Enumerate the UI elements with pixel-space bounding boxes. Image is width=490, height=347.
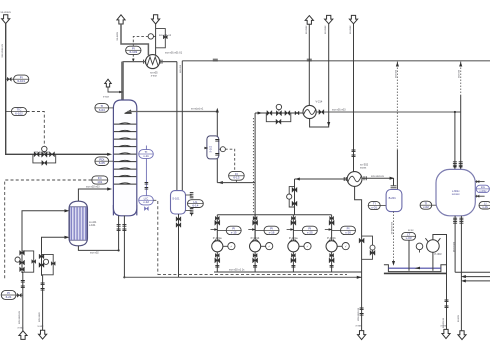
svg-text:P-101b: P-101b	[251, 236, 260, 240]
svg-text:B-201: B-201	[389, 196, 397, 200]
flange B-301 feed right 2	[459, 165, 463, 167]
flange column bottoms left 2	[117, 229, 121, 231]
trim cooler V-214	[303, 105, 316, 118]
svg-text:xx-xxxx: xx-xxxx	[305, 25, 308, 34]
wire suction drop P-201a	[292, 215, 294, 241]
svg-text:x-3x: x-3x	[482, 205, 488, 209]
svg-text:x-16: x-16	[269, 230, 275, 234]
wire discharge P-101a	[216, 252, 218, 272]
wire product rail stub	[455, 111, 461, 113]
flow arrow reboiler return	[107, 187, 112, 190]
reboiler E-101 shell	[69, 201, 88, 246]
valve suction P-201b 1	[330, 216, 334, 220]
wire pump suction header	[217, 214, 331, 216]
reboiler tube 6	[85, 207, 87, 240]
svg-text:xxx-x-x1x: xxx-x-x1x	[452, 242, 455, 253]
valve LG B-301 top	[477, 180, 480, 183]
flange discharge P-101a	[215, 265, 219, 267]
flange pair condenser inlet	[144, 60, 146, 64]
flow arrow join 1	[461, 275, 466, 278]
wire steam to reboiler	[22, 211, 65, 250]
wire bottoms product to OUT	[355, 186, 362, 330]
reboiler tube 2	[73, 207, 75, 240]
svg-text:xx-xxxx: xx-xxxx	[116, 31, 119, 40]
flow arrow into trough	[392, 261, 395, 266]
svg-text:xxx-xxx: xxx-xxx	[179, 65, 182, 74]
condensate control valve body	[39, 263, 44, 268]
block valve V-214 line 2	[285, 111, 290, 116]
svg-text:x-03x: x-03x	[479, 189, 487, 193]
svg-text:xxx-x01-x01-01: xxx-x01-x01-01	[165, 51, 183, 54]
actuator condensate control valve	[43, 259, 48, 264]
signal dashed trap to FI	[225, 149, 235, 170]
svg-text:101: 101	[97, 180, 102, 184]
svg-text:x-xxx: x-xxx	[103, 95, 110, 98]
valve suction P-101a 1	[215, 216, 219, 220]
wire discharge P-101b	[254, 252, 256, 272]
column tray 7	[114, 168, 136, 169]
svg-text:xxx-xxxx-xx: xxx-xxxx-xx	[390, 222, 393, 235]
svg-text:xxx-xxx: xxx-xxx	[457, 70, 460, 79]
svg-text:x-15: x-15	[231, 230, 237, 234]
wire B-301 outlet to right edge	[455, 271, 490, 273]
pump P-201b	[326, 240, 349, 252]
wire PI-101 tap	[6, 78, 14, 80]
wire LG tap upper	[186, 194, 192, 196]
wire actuator stem	[43, 151, 45, 153]
wire steam riser	[21, 250, 23, 273]
svg-text:6-102: 6-102	[15, 111, 23, 115]
flange LG bottom	[190, 209, 194, 211]
valve riser 1	[292, 187, 297, 192]
wire B-301 vent dotted	[460, 62, 462, 95]
wire P-303 discharge to OUT	[433, 235, 447, 330]
svg-text:6-21: 6-21	[6, 295, 12, 299]
wire suction drop P-101a	[216, 215, 218, 241]
valve suction P-201a 1	[291, 216, 295, 220]
column tray 3	[114, 138, 136, 139]
valve discharge P-201a 1	[291, 253, 295, 257]
off-page connector CW in (down)	[152, 15, 160, 24]
instrument TI column top	[95, 104, 109, 113]
svg-text:xxxxx: xxxxx	[360, 166, 367, 169]
svg-text:x-xxx: x-xxx	[18, 327, 25, 330]
flange pair condenser outlet	[160, 60, 162, 64]
off-page connector bottoms out (down)	[358, 331, 366, 340]
cooler E-302	[347, 172, 362, 187]
wire discharge P-201b	[331, 252, 333, 272]
instrument FI-113	[229, 171, 245, 180]
valve steam station upper	[20, 250, 25, 255]
instrument PI steam	[1, 290, 16, 299]
flow arrow into riser	[295, 177, 300, 180]
flange E-302 inlet	[352, 150, 356, 152]
wire to E-302 from IN-4	[353, 24, 355, 172]
open sump trough	[384, 265, 446, 272]
flow arrow into column feed nozzle	[107, 153, 112, 156]
wire tee stub P-101b	[248, 229, 252, 231]
valve S-101 bottom 1	[176, 217, 181, 222]
wire condensate bypass loop	[42, 254, 54, 274]
flange B-301 feed right	[459, 162, 463, 164]
wire condenser inlet rail	[123, 61, 146, 63]
wire reboiler bottom crossover	[78, 246, 118, 251]
svg-text:xxx-x02-x03: xxx-x02-x03	[86, 186, 100, 189]
control valve actuator on CW line	[148, 34, 153, 39]
wire riser from pump header	[294, 179, 296, 215]
flow arrow small vent	[119, 91, 123, 93]
signal dashed LIC rail	[158, 274, 347, 276]
flange on bridle 2	[145, 188, 149, 190]
wire LG B-301 bottom tap	[475, 195, 484, 197]
flow arrow up at corner	[216, 108, 219, 113]
flange steam line	[21, 281, 25, 283]
control valve body TV-214	[276, 111, 281, 116]
off-page connector condensate out (bottom, down)	[39, 330, 47, 339]
wire overhead vapor rail to flare	[182, 60, 490, 62]
column tray 2	[114, 130, 136, 131]
junction rail B-301 feed	[454, 111, 456, 113]
svg-text:xx-xxxx: xx-xxxx	[349, 25, 352, 34]
off-page connector IN-3 (down)	[325, 15, 333, 23]
svg-text:x-03: x-03	[406, 236, 412, 240]
wire B-301 outlet left	[454, 216, 456, 272]
svg-text:P-303: P-303	[435, 252, 442, 256]
condensate bypass valve	[51, 262, 55, 266]
svg-text:x-101: x-101	[89, 223, 96, 227]
wire V-214 CW supply	[310, 24, 329, 128]
svg-text:xx-xxxx: xx-xxxx	[324, 25, 327, 34]
svg-text:P-101a: P-101a	[213, 236, 222, 240]
wire valve stem sump	[419, 250, 421, 253]
valve discharge P-101a 1	[215, 253, 219, 257]
wire P-303 suction	[432, 252, 434, 271]
off-page connector small vent (up)	[105, 79, 111, 87]
svg-text:x-01: x-01	[371, 205, 377, 209]
wire B-301 feed left	[454, 112, 456, 169]
wire from right edge 1	[464, 276, 490, 278]
wire TI-301 stub	[380, 205, 386, 207]
svg-text:xxx-xxxx-xx: xxx-xxxx-xx	[357, 307, 360, 321]
svg-text:x-xxx: x-xxx	[38, 325, 45, 328]
surge drum B-201	[386, 190, 402, 212]
column T-101 bottom head	[113, 205, 136, 216]
wire actuator stem CW	[153, 35, 155, 37]
valve riser 2	[292, 201, 297, 206]
wire bottoms bypass loop	[362, 236, 373, 259]
wire distillate riser/pump suction	[254, 113, 256, 241]
flange B-301 feed left	[453, 162, 457, 164]
wire condensate drop	[41, 254, 43, 276]
svg-text:xxx-xxxx-xx: xxx-xxxx-xx	[1, 43, 4, 57]
flange B-301 drain	[459, 218, 463, 220]
pump P-201a	[288, 240, 311, 252]
svg-text:6-05: 6-05	[99, 161, 105, 165]
svg-text:✓: ✓	[230, 244, 233, 248]
signal dashed PC to CW valve	[133, 36, 148, 46]
valve condensate upper	[39, 254, 44, 259]
instrument LIC-112 (blue)	[139, 196, 154, 205]
flange B-301 drain 2	[459, 222, 463, 224]
flow arrow into B-301 b	[459, 166, 461, 170]
block valve feed station 1	[34, 152, 39, 157]
flange pair on rail 2	[307, 59, 312, 61]
svg-text:xxxxxx: xxxxxx	[452, 193, 460, 196]
svg-text:x-12: x-12	[143, 200, 149, 204]
svg-text:6-04: 6-04	[99, 108, 105, 112]
svg-text:6-103: 6-103	[129, 50, 137, 54]
column tray 1	[114, 123, 136, 124]
valve suction P-101a 2	[215, 220, 220, 225]
flange condensate	[41, 283, 45, 285]
svg-text:xxx-xxxx-xx: xxx-xxxx-xx	[18, 310, 21, 324]
valve suction P-101b 2	[253, 220, 258, 225]
wire steam bypass loop	[22, 251, 34, 272]
flow arrow bottoms rail	[357, 276, 362, 279]
wire TI B-301 stub	[432, 204, 436, 206]
flange B-301 outlet left	[453, 218, 457, 220]
instrument PI P-201a	[302, 226, 317, 234]
instrument PI P-101a	[226, 226, 241, 234]
wire PI tap column mid	[109, 160, 114, 162]
instrument TI B-301	[420, 201, 432, 209]
svg-text:P-201a: P-201a	[289, 236, 298, 240]
flange column bottoms right 2	[122, 229, 126, 231]
wire TI-102 tap	[6, 111, 12, 113]
svg-text:P-201b: P-201b	[327, 236, 336, 240]
instrument PI P-201b	[341, 226, 356, 234]
flow arrow tee P-201b	[329, 228, 333, 230]
flange pair E-302 right	[364, 176, 366, 180]
wire discharge P-201a	[292, 252, 294, 272]
pump P-101b	[250, 240, 273, 252]
flange LG bottom2	[190, 212, 194, 214]
flange column bottoms right	[122, 225, 126, 227]
actuator steam control valve	[15, 257, 20, 262]
steam control valve body	[20, 260, 25, 265]
reboiler tube 5	[82, 207, 84, 240]
wire column bottoms left	[118, 216, 120, 251]
wire B-201 inlet drop	[393, 178, 395, 185]
wire reboiler return to column	[78, 189, 107, 201]
flange B-301 feed left 2	[453, 165, 457, 167]
wire S-101 bottoms drop	[178, 214, 180, 277]
wire S-102 bottom drop	[216, 159, 218, 183]
bypass valve V-214	[276, 119, 281, 124]
wire LT dip tube	[408, 240, 410, 271]
wire line to V-214	[255, 112, 303, 114]
wire small vent line	[108, 87, 123, 92]
signal dashed LIC to bottoms valve	[153, 200, 158, 274]
flange pair B-201 top	[391, 186, 397, 188]
wire PI steam tap	[16, 294, 23, 296]
wire feed bypass loop	[33, 154, 56, 163]
flange P-303 discharge 2	[445, 306, 449, 308]
flow arrow into V-214 line	[258, 111, 263, 114]
svg-text:6-101: 6-101	[17, 79, 25, 83]
wire condenser outlet rail	[160, 61, 177, 63]
wire B-201 vent riser dotted	[396, 62, 398, 150]
off-page connector product out (down)	[442, 329, 450, 338]
wire tee stub P-101a	[211, 229, 215, 231]
wire tee stub P-201b	[325, 229, 329, 231]
instrument LI B-301	[479, 202, 490, 210]
valve circle sump	[416, 243, 423, 250]
instrument PIC-103	[126, 46, 141, 54]
flange LG top	[190, 193, 194, 195]
control valve body feed	[42, 152, 47, 157]
svg-text:xx xx: xx xx	[408, 229, 414, 232]
signal dashed FC-101 line	[5, 180, 92, 280]
steam bypass valve	[32, 260, 36, 264]
valve S-101 bottom 2	[176, 223, 181, 228]
block valve feed station 2	[50, 152, 55, 157]
reboiler tube 4	[79, 207, 81, 240]
flange LG top2	[190, 196, 194, 198]
svg-text:xx-xxxxx: xx-xxxxx	[1, 11, 12, 14]
valve after V-214	[319, 110, 324, 115]
wire bottoms rail	[124, 276, 361, 278]
instrument LT sump	[402, 232, 416, 240]
wire PI stub P-201b	[332, 229, 341, 231]
flange discharge P-201a	[291, 265, 295, 267]
svg-text:xx-x(xx)-x1: xx-x(xx)-x1	[191, 107, 204, 110]
svg-text:✓: ✓	[268, 244, 271, 248]
wire B-301 feed right	[460, 95, 462, 169]
actuator TV-214	[276, 104, 281, 109]
wire trap stub	[219, 148, 221, 150]
steam trap on S-102	[220, 147, 225, 152]
signal arrow onto condenser line	[132, 59, 134, 63]
svg-text:✓: ✓	[306, 244, 309, 248]
wire condensate from reboiler	[42, 237, 66, 253]
wire condensate to S-101	[176, 62, 178, 191]
flow arrow tee P-101b	[252, 228, 256, 230]
wire B-201 vent riser	[396, 150, 398, 190]
svg-text:xxx-xxxx: xxx-xxxx	[38, 312, 41, 322]
flange on bridle	[145, 183, 149, 185]
flow arrow into B-201 top	[390, 177, 395, 180]
svg-text:xxx-xxx: xxx-xxx	[394, 70, 397, 79]
flange pair on rail	[213, 59, 218, 61]
wire column overhead draw line	[127, 111, 217, 113]
wire V-214 CW return riser	[308, 24, 310, 105]
off-page connector IN-1 (top left, down)	[2, 15, 10, 24]
wire level bridle blue	[145, 146, 147, 197]
valve suction P-201a 2	[291, 220, 296, 225]
wire CW bypass loop	[156, 29, 166, 48]
svg-text:xxx-x02-x1 1x: xxx-x02-x1 1x	[229, 269, 245, 272]
wire B-201 drain dotted	[393, 212, 395, 262]
wire tee stub P-201a	[287, 229, 291, 231]
junction bottoms-rail	[123, 276, 125, 278]
junction crossover-column	[118, 249, 120, 251]
flow arrow CW down	[327, 122, 330, 127]
off-page connector OUT vent (up)	[117, 15, 125, 24]
wire TI tap column top	[109, 107, 114, 109]
pump P-101a	[212, 240, 235, 252]
bypass valve feed	[42, 160, 47, 165]
flange P-303 discharge	[445, 300, 449, 302]
flow arrow into B-301 a	[454, 166, 456, 170]
flow arrow vent up	[396, 62, 399, 67]
svg-text:x-xxx: x-xxx	[441, 325, 447, 328]
wire from right edge 2	[464, 280, 490, 282]
svg-text:x-xxx: x-xxx	[151, 74, 158, 77]
valve steam station lower	[20, 267, 25, 272]
instrument PDI column	[95, 157, 109, 166]
instrument PI P-101b	[264, 226, 279, 234]
flow arrow tee P-201a	[290, 228, 294, 230]
wire pump discharge header	[214, 271, 362, 273]
instrument TI-301	[368, 201, 380, 209]
svg-text:x-xxx: x-xxx	[356, 325, 363, 328]
valve discharge P-101a 2	[215, 258, 220, 263]
svg-text:xxx-x01-x03: xxx-x01-x03	[332, 109, 346, 112]
signal dashed FI stem	[235, 180, 237, 182]
flange S-102 bottom	[215, 154, 219, 156]
off-page connector IN-4 (down)	[349, 15, 357, 23]
wire steam from OSBL	[22, 272, 24, 331]
flange discharge P-201b	[330, 265, 334, 267]
wire actuator stem TV	[278, 109, 280, 111]
svg-text:x-26: x-26	[345, 230, 351, 234]
wire S-101 vapor to rail	[181, 61, 183, 191]
block valve V-214 line 3	[295, 111, 299, 115]
pump P-303	[425, 238, 440, 252]
wire reflux neck into column	[121, 62, 124, 100]
flange column bottoms left	[117, 225, 121, 227]
bypass valve CW	[163, 35, 167, 39]
flange discharge P-101b	[253, 265, 257, 267]
flange bottoms line 2	[360, 314, 364, 316]
svg-text:✓: ✓	[344, 244, 347, 248]
flow arrow condensate	[64, 236, 69, 239]
column tray 9	[114, 183, 136, 184]
wire suction drop P-201b	[331, 215, 333, 241]
valve discharge P-201a 2	[291, 258, 296, 263]
flange E-302 inlet 2	[352, 155, 356, 157]
flow arrow join 2	[461, 279, 466, 282]
flow arrow into S-102	[204, 147, 208, 149]
flange S-102 top	[215, 140, 219, 142]
drain arrow LG	[190, 213, 192, 216]
flange pair E-302 left	[344, 177, 346, 181]
sump liquid level (blue)	[388, 267, 441, 269]
wire distillate crossover	[217, 182, 255, 184]
svg-text:xxx-xxxx-xx: xxx-xxxx-xx	[371, 175, 385, 178]
wire vent line to flare	[121, 24, 148, 55]
valve PI steam tap	[17, 293, 21, 297]
wire LG tap lower	[186, 210, 192, 212]
valve suction P-101b 1	[253, 216, 257, 220]
off-page connector steam in (bottom, up)	[19, 331, 27, 340]
valve discharge P-101b 1	[253, 253, 257, 257]
wire riser bypass loop	[289, 187, 294, 207]
actuator bottoms control valve	[370, 245, 375, 250]
reboiler E-101 tube section	[70, 207, 88, 240]
bottoms control valve body	[370, 250, 375, 255]
condenser E-105	[146, 55, 160, 69]
off-page connector drain out (down)	[458, 331, 466, 340]
signal dotted parallel riser	[252, 118, 254, 213]
instrument TIC-102	[11, 107, 26, 115]
column internal feed arrow	[125, 110, 137, 113]
valve discharge P-101b 2	[253, 258, 258, 263]
flow arrow steam in	[64, 209, 69, 212]
signal dashed TIC-102 to FV	[27, 112, 45, 147]
wire feed line from IN-1 to column T-101	[6, 24, 108, 155]
